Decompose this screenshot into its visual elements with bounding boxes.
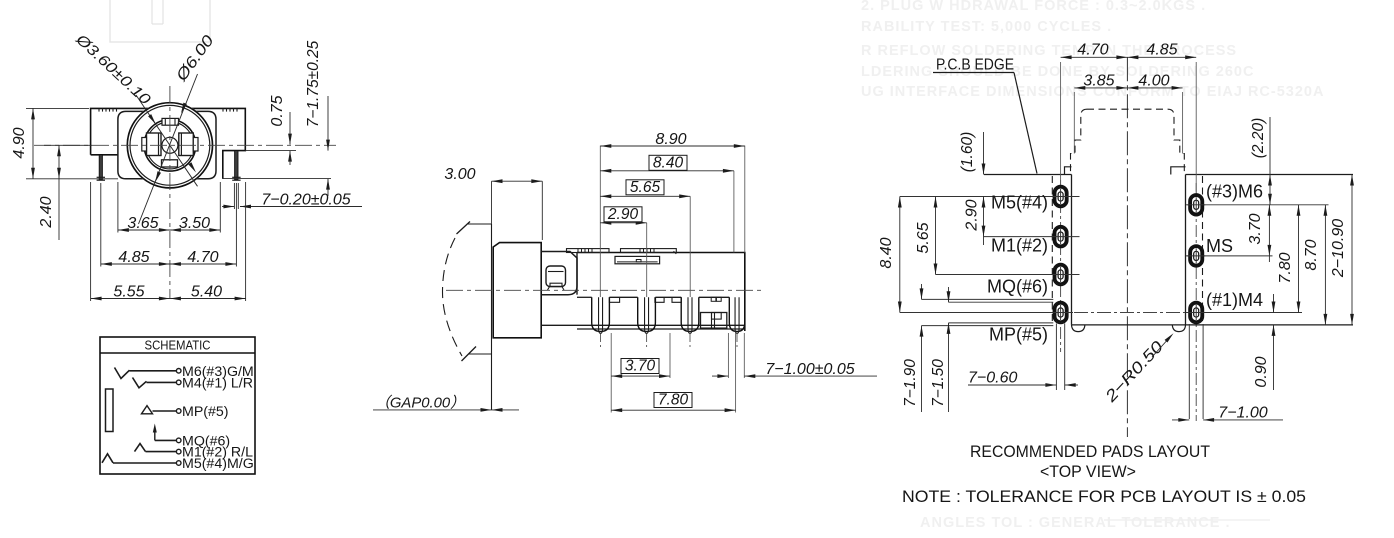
svg-text:M1(#2): M1(#2) xyxy=(991,236,1048,256)
dimension 7-1.75+-0.25 xyxy=(327,96,329,151)
front view right pin xyxy=(235,151,238,180)
dimension 8.40 boxed xyxy=(600,170,734,172)
front view top edge hatch ticks xyxy=(98,108,100,111)
svg-text:LDERING SHOULD BE DONE BY: LDERING SHOULD BE DONE BY SOLDERING 260C xyxy=(861,64,1254,80)
dimension 2.90 boxed xyxy=(600,222,646,224)
svg-text:3.00: 3.00 xyxy=(444,166,475,183)
svg-text:5.65: 5.65 xyxy=(630,179,661,196)
trace below MP 0.60 width xyxy=(1055,324,1057,391)
side view top tab 2 xyxy=(621,249,677,253)
pad row line M5 xyxy=(900,196,1080,198)
dimension 2.90 left xyxy=(983,197,985,246)
side view panel break line xyxy=(457,222,471,235)
svg-text:7−0.60: 7−0.60 xyxy=(968,370,1017,387)
svg-text:（GAP0.00）: （GAP0.00） xyxy=(375,395,465,412)
dimension 7-1.50 xyxy=(948,287,950,302)
svg-text:5.40: 5.40 xyxy=(191,284,222,301)
side view pin step notches xyxy=(609,297,619,302)
dimension 7-1.00+-0.05 xyxy=(712,375,728,377)
svg-text:R REFLOW SOLDERING TEMP IN: R REFLOW SOLDERING TEMP IN THE PROCESS xyxy=(861,43,1237,59)
svg-text:5.65: 5.65 xyxy=(915,222,932,253)
pcb edge line right xyxy=(1186,174,1354,176)
extension lines right side 0.75 / 1.75 xyxy=(246,150,297,152)
side view main body xyxy=(577,253,745,332)
right column left edge xyxy=(1185,175,1187,325)
dimension 7-0.20+-0.05 right pin width xyxy=(233,183,235,209)
svg-text:7.80: 7.80 xyxy=(658,392,689,409)
front view body outline xyxy=(91,108,246,178)
svg-text:3.70: 3.70 xyxy=(1247,213,1264,244)
svg-text:3.70: 3.70 xyxy=(625,358,656,375)
svg-text:7−1.50: 7−1.50 xyxy=(930,359,947,407)
svg-text:SCHEMATIC: SCHEMATIC xyxy=(145,339,211,353)
svg-text:5.55: 5.55 xyxy=(113,284,144,301)
front view center hole xyxy=(162,137,178,153)
svg-text:(1.60): (1.60) xyxy=(959,132,976,173)
dimension 3.00 xyxy=(491,181,493,224)
schematic contact M4 xyxy=(133,378,147,388)
pads layout pad column dash-dot axes xyxy=(1060,180,1062,352)
svg-text:4.85: 4.85 xyxy=(118,249,149,266)
dimension 8.70 right xyxy=(1324,205,1326,325)
dimension (2.20) xyxy=(1269,117,1271,205)
front view left pin xyxy=(99,155,102,180)
svg-text:3.50: 3.50 xyxy=(179,215,210,232)
svg-text:4.90: 4.90 xyxy=(11,127,28,158)
dimension (1.60) xyxy=(983,132,985,175)
dimension 5.65 left xyxy=(935,197,937,275)
front view bottom contact slot xyxy=(162,160,178,167)
svg-text:RECOMMENDED PADS LAYOUT: RECOMMENDED PADS LAYOUT xyxy=(970,443,1210,461)
svg-text:2−10.90: 2−10.90 xyxy=(1330,219,1347,278)
svg-text:MP(#5): MP(#5) xyxy=(182,404,229,420)
side view panel edge line xyxy=(491,224,493,410)
side view extension lines vertical xyxy=(599,146,601,297)
svg-text:0.75: 0.75 xyxy=(269,95,286,126)
pad row line MS xyxy=(1186,255,1273,257)
pad row line MQ xyxy=(936,274,1080,276)
side view pin centerline stubs xyxy=(600,334,602,347)
dimension 3.85 / 4.00 xyxy=(1073,92,1075,154)
dimension 3.70 right xyxy=(1268,205,1270,262)
schematic switch arrow MQ xyxy=(154,427,156,440)
svg-text:3.65: 3.65 xyxy=(127,215,158,232)
svg-text:<TOP VIEW>: <TOP VIEW> xyxy=(1040,463,1136,481)
svg-text:7−1.75±0.25: 7−1.75±0.25 xyxy=(305,40,322,127)
edge bump left xyxy=(1065,167,1072,175)
front view barrel second ring xyxy=(130,105,210,185)
pad row line M6 xyxy=(1186,204,1329,206)
dimension 2.40 xyxy=(58,145,60,240)
pad M6(#3) xyxy=(1189,194,1204,216)
svg-text:7.80: 7.80 xyxy=(1277,252,1294,283)
svg-text:(2.20): (2.20) xyxy=(1250,118,1267,159)
corner fillet left 2-R0.50 xyxy=(1072,325,1085,332)
svg-text:MS: MS xyxy=(1206,236,1233,256)
svg-text:NOTE : TOLERANCE FOR PCB LAYO: NOTE : TOLERANCE FOR PCB LAYOUT IS ± 0.0… xyxy=(902,488,1306,506)
svg-text:7−1.00±0.05: 7−1.00±0.05 xyxy=(765,361,854,378)
pad MS xyxy=(1189,245,1204,267)
side view top tab 1 xyxy=(567,249,610,253)
side view horizontal centerline xyxy=(446,289,762,291)
schematic contact M1 xyxy=(135,444,146,452)
pad MP(#5) xyxy=(1053,302,1068,324)
svg-text:8.40: 8.40 xyxy=(878,237,895,268)
pad M4(#1) xyxy=(1189,302,1204,324)
front view top contact slot xyxy=(162,118,179,125)
svg-text:2.40: 2.40 xyxy=(38,196,55,228)
front view left contact xyxy=(147,133,162,156)
schematic contact MP xyxy=(142,406,153,414)
svg-text:ANGLES TOL : GENERAL TOLER: ANGLES TOL : GENERAL TOLERANCE . xyxy=(920,515,1230,531)
svg-text:7−0.20±0.05: 7−0.20±0.05 xyxy=(261,192,350,209)
svg-text:M5(#4)M/G: M5(#4)M/G xyxy=(182,456,254,472)
diameter dimension 6.00 diagonal line xyxy=(139,74,198,224)
trace below M4 1.00 width xyxy=(1188,324,1190,419)
svg-text:7−1.90: 7−1.90 xyxy=(902,359,919,407)
dimension 2-10.90 xyxy=(1351,175,1353,325)
pad M5(#4) xyxy=(1053,186,1068,208)
dimension 3.70 boxed xyxy=(611,375,670,377)
schematic contact M5 xyxy=(102,454,113,463)
side view body bottom lines xyxy=(541,324,745,326)
svg-text:4.70: 4.70 xyxy=(1077,42,1108,59)
side view pins xyxy=(592,297,610,331)
svg-text:M5(#4): M5(#4) xyxy=(991,193,1048,213)
side view shield box detail xyxy=(701,313,727,329)
svg-text:8.90: 8.90 xyxy=(655,131,686,148)
dimension row 3.65 / 3.50 xyxy=(117,182,119,233)
dimension 7.80 right xyxy=(1298,205,1300,313)
svg-text:MQ(#6): MQ(#6) xyxy=(987,277,1048,297)
pad row line M1 xyxy=(984,236,1080,238)
edge bump right xyxy=(1171,167,1186,175)
svg-text:4.00: 4.00 xyxy=(1138,73,1169,90)
svg-text:M4(#1) L/R: M4(#1) L/R xyxy=(182,375,253,391)
side view recessed window xyxy=(615,256,660,263)
dimension 7-0.60 xyxy=(968,384,1046,386)
front view sleeve circle xyxy=(144,120,196,172)
dimension 4.90 left xyxy=(26,107,89,109)
dimension 0.90 xyxy=(1273,294,1275,313)
pads layout dashed connector outline xyxy=(1087,108,1168,110)
svg-text:P.C.B EDGE: P.C.B EDGE xyxy=(936,57,1014,74)
svg-text:8.70: 8.70 xyxy=(1303,239,1320,270)
pcb edge line left xyxy=(984,174,1072,176)
corner fillet right 2-R0.50 xyxy=(1172,325,1185,332)
svg-text:(#3)M6: (#3)M6 xyxy=(1206,182,1263,202)
ghost box top-left xyxy=(110,0,210,42)
dimension 8.90 xyxy=(600,145,745,147)
dimension row 4.85 / 4.70 xyxy=(100,183,102,267)
dimension row 5.55 / 5.40 xyxy=(90,182,92,301)
svg-text:2.90: 2.90 xyxy=(607,206,639,223)
schematic box xyxy=(100,337,255,474)
svg-text:2.90: 2.90 xyxy=(964,199,981,231)
pad MQ(#6) xyxy=(1053,264,1068,286)
svg-text:8.40: 8.40 xyxy=(653,154,684,171)
front view sleeve inner ring xyxy=(146,122,193,169)
faint background note text (watermark) xyxy=(861,0,1324,531)
front view horizontal centerline xyxy=(34,144,336,146)
left column right edge xyxy=(1071,175,1073,325)
pad M1(#2) xyxy=(1053,226,1068,248)
diameter dimension 3.60 diagonal line xyxy=(136,95,198,186)
schematic jack plug rectangle xyxy=(106,389,114,432)
front view barrel outer circle xyxy=(127,103,212,188)
dimension 7.80 boxed xyxy=(611,409,735,411)
svg-text:3.85: 3.85 xyxy=(1083,73,1114,90)
front view vertical centerline xyxy=(169,86,171,299)
dimension 5.65 boxed xyxy=(600,195,690,197)
dimension 4.70 / 4.85 top xyxy=(1060,62,1062,184)
side view front housing section xyxy=(541,252,577,295)
svg-text:4.85: 4.85 xyxy=(1146,42,1177,59)
svg-text:MP(#5): MP(#5) xyxy=(989,325,1048,345)
svg-text:0.90: 0.90 xyxy=(1253,356,1270,387)
front view right contact xyxy=(179,133,194,156)
svg-text:4.70: 4.70 xyxy=(187,249,218,266)
trace lines MP 1.90 width xyxy=(922,298,1054,300)
dimension 0.75 xyxy=(289,112,291,145)
side view flange xyxy=(493,243,541,338)
front view inner housing rounded square xyxy=(118,111,216,178)
side view switch detail xyxy=(546,266,566,287)
pads layout dashed body sides xyxy=(1051,176,1053,325)
dimension 7-1.90 xyxy=(921,284,923,299)
pcb bottom edge line xyxy=(1072,324,1354,326)
svg-text:RABILITY TEST: 5,000 CYCL: RABILITY TEST: 5,000 CYCLES . xyxy=(861,19,1112,35)
svg-text:2. PLUG W HDRAWAL FORCE :: 2. PLUG W HDRAWAL FORCE : 0.3~2.0KGS . xyxy=(861,0,1206,14)
trace lines MP 1.50 width xyxy=(949,301,1054,303)
dimension 8.40 left xyxy=(899,197,901,313)
pad row line MP / M4 common axis xyxy=(900,312,1073,314)
svg-text:(#1)M4: (#1)M4 xyxy=(1206,290,1263,310)
dimension 7-1.00 pads xyxy=(1172,419,1189,421)
pads layout main centerline xyxy=(1126,57,1128,437)
schematic contact M6 xyxy=(115,368,130,379)
svg-text:7−1.00: 7−1.00 xyxy=(1218,405,1267,422)
side view pin top edge with notches xyxy=(577,296,592,298)
